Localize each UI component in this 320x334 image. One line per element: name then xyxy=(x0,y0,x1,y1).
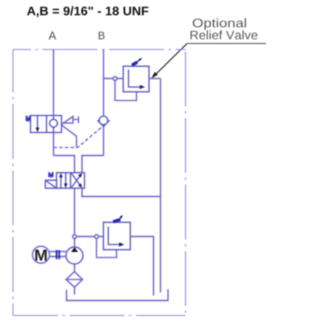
enclosure boundary (power unit) xyxy=(13,50,186,316)
wire: pump inlet xyxy=(74,264,76,272)
wire: port A line xyxy=(53,50,55,117)
leader underline xyxy=(187,43,266,45)
pilot line (dashed) from A drop to check valve CV1 xyxy=(54,127,103,148)
relief valve RV2 (system) xyxy=(103,222,130,249)
solenoid box of DV1 xyxy=(45,180,56,188)
title: port thread size note xyxy=(27,6,148,17)
wire: RV2 output to tank xyxy=(131,237,154,296)
solenoid valve V1 (2-position) xyxy=(31,116,62,133)
solenoid mark of DV1 (zigzag) xyxy=(49,172,53,177)
node: RV2 drain junction xyxy=(95,235,99,239)
wire: relief return line to tank xyxy=(160,79,162,293)
adjustment arrow of RV2 xyxy=(113,215,123,222)
leader arrow to relief valve RV1 xyxy=(151,44,187,79)
port label A xyxy=(49,32,57,40)
wire: A-side link to DV1 top port xyxy=(54,156,75,173)
wire: V1 outlet drop xyxy=(53,132,55,155)
port label B xyxy=(99,32,105,40)
tank T1 xyxy=(67,289,169,300)
directional valve DV1 (4/2 solenoid) xyxy=(57,173,85,189)
adjustment arrow of RV1 xyxy=(132,58,142,66)
relief valve RV1 (optional) xyxy=(123,66,149,92)
filter F1 xyxy=(66,272,83,288)
annotation: Optional Relief Valve xyxy=(191,18,258,39)
wire: B-side link to DV1 top port xyxy=(82,156,104,173)
coupling motor-pump xyxy=(50,250,67,259)
wire: DV1 pressure port to pump node xyxy=(74,188,76,235)
wire: filter suction stub xyxy=(74,287,76,294)
node: pump junction xyxy=(73,235,77,239)
check valve CV1 on B line xyxy=(97,116,109,126)
wire: RV2 drain loop xyxy=(97,239,117,258)
spring of V1 (right side) xyxy=(62,116,79,124)
wire: RV1 drain loop xyxy=(115,81,137,101)
wire: V1 pilot takeoff (solid) xyxy=(62,125,77,147)
solenoid mark of V1 (zigzag) xyxy=(26,116,30,121)
wire: relief pilot line from B xyxy=(104,78,124,80)
wire: pump pressure branch to RV2 xyxy=(75,236,104,238)
wire: pump outlet xyxy=(74,239,76,248)
wire: port B line xyxy=(103,50,105,117)
node: relief pilot junction xyxy=(113,77,117,81)
wire: DV1 tank port to return line xyxy=(82,188,161,196)
motor M1 xyxy=(33,246,50,263)
wire: RV1 output xyxy=(149,78,161,80)
wire: B line below check valve xyxy=(103,126,105,155)
pump P1 xyxy=(66,247,83,264)
